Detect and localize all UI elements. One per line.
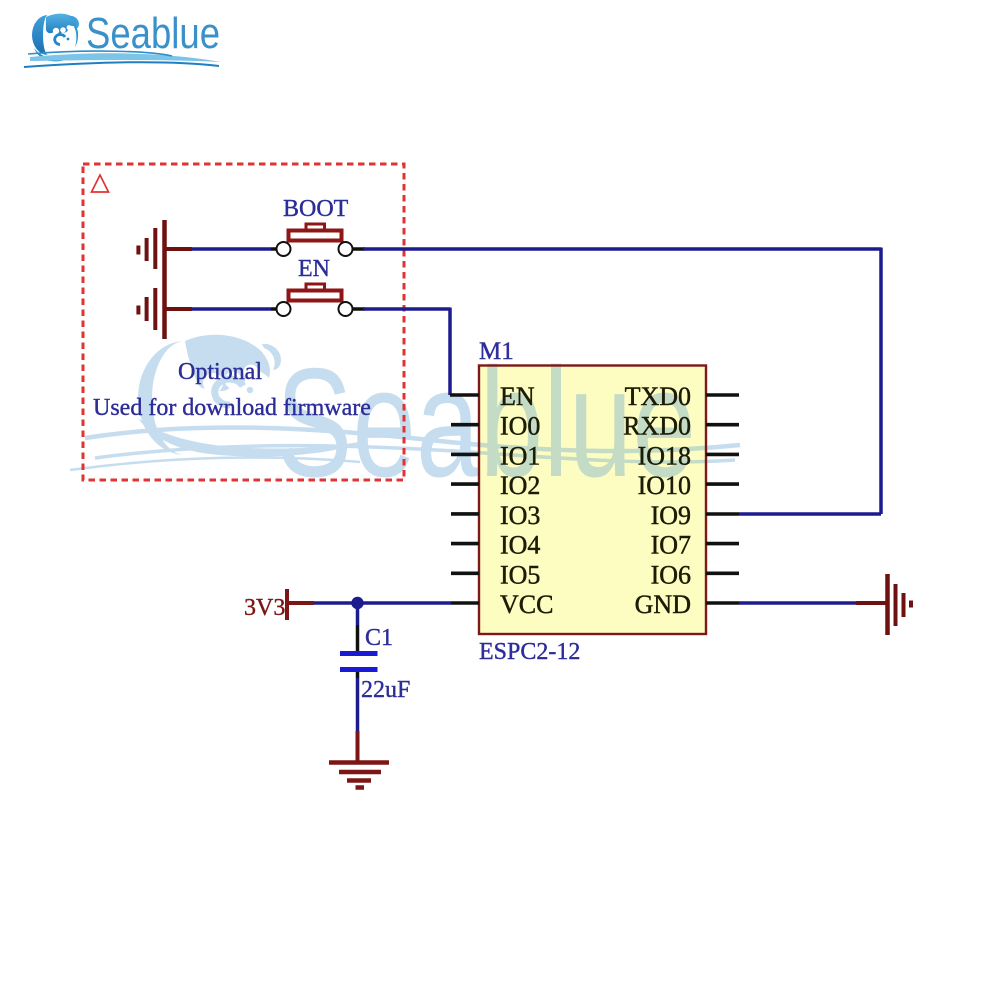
wire: EN switch to EN pin [353,308,451,396]
wire: GND pin to right ground [739,601,856,605]
pin IO3 [451,512,479,516]
svg-text:VCC: VCC [500,590,553,619]
ground (upper left) [138,220,192,279]
svg-text:IO5: IO5 [500,560,540,589]
svg-text:22uF: 22uF [361,677,410,703]
pin IO6 [706,571,739,575]
pin VCC [451,601,479,605]
svg-text:3V3: 3V3 [244,595,285,621]
text: Optional / Used for download firmware [93,359,371,421]
pin IO2 [451,482,479,486]
ground (below C1) [329,731,389,788]
svg-text:IO18: IO18 [638,441,691,470]
pin IO7 [706,542,739,546]
pushbutton EN [277,256,353,316]
svg-text:IO10: IO10 [638,471,691,500]
pin IO18 [706,453,739,457]
pin IO9 [706,512,739,516]
svg-text:IO7: IO7 [651,531,691,560]
svg-text:IO3: IO3 [500,501,540,530]
module M1 ESPC2-12 [479,338,706,665]
pin EN [450,393,479,397]
svg-text:M1: M1 [479,338,514,365]
ground (lower left) [138,279,192,339]
capacitor C1 [340,603,393,731]
node junction at C1 [351,597,363,609]
svg-text:EN: EN [500,382,535,411]
svg-text:EN: EN [298,256,330,282]
pin TXD0 [706,393,739,397]
svg-text:ESPC2-12: ESPC2-12 [479,639,580,665]
svg-text:RXD0: RXD0 [623,412,691,441]
pushbutton BOOT [277,196,353,256]
svg-text:Seablue: Seablue [86,9,220,58]
pin IO1 [451,453,479,457]
wire: 3V3 to VCC pin [314,601,451,605]
pin IO10 [706,482,739,486]
svg-text:IO9: IO9 [651,501,691,530]
svg-text:BOOT: BOOT [283,196,349,222]
pin GND [706,601,739,605]
svg-text:GND: GND [635,590,691,619]
svg-text:TXD0: TXD0 [625,382,691,411]
pin IO5 [451,571,479,575]
wire: left ground to EN switch [192,307,277,311]
pin IO0 [451,423,479,427]
svg-text:Used for download firmware: Used for download firmware [93,395,371,421]
svg-text:IO2: IO2 [500,471,540,500]
ground (right) [856,574,911,635]
power rail 3V3 [244,589,314,621]
svg-text:C1: C1 [365,625,393,651]
wire: BOOT switch to IO9 (top run and right drop) [353,248,882,515]
svg-text:IO0: IO0 [500,412,540,441]
optional section dashed border [83,164,404,480]
svg-text:Optional: Optional [178,359,262,385]
wire: left ground to BOOT switch [192,247,277,251]
pin RXD0 [706,423,739,427]
svg-text:IO6: IO6 [651,560,691,589]
svg-text:IO4: IO4 [500,531,540,560]
pin IO4 [451,542,479,546]
svg-text:IO1: IO1 [500,441,540,470]
